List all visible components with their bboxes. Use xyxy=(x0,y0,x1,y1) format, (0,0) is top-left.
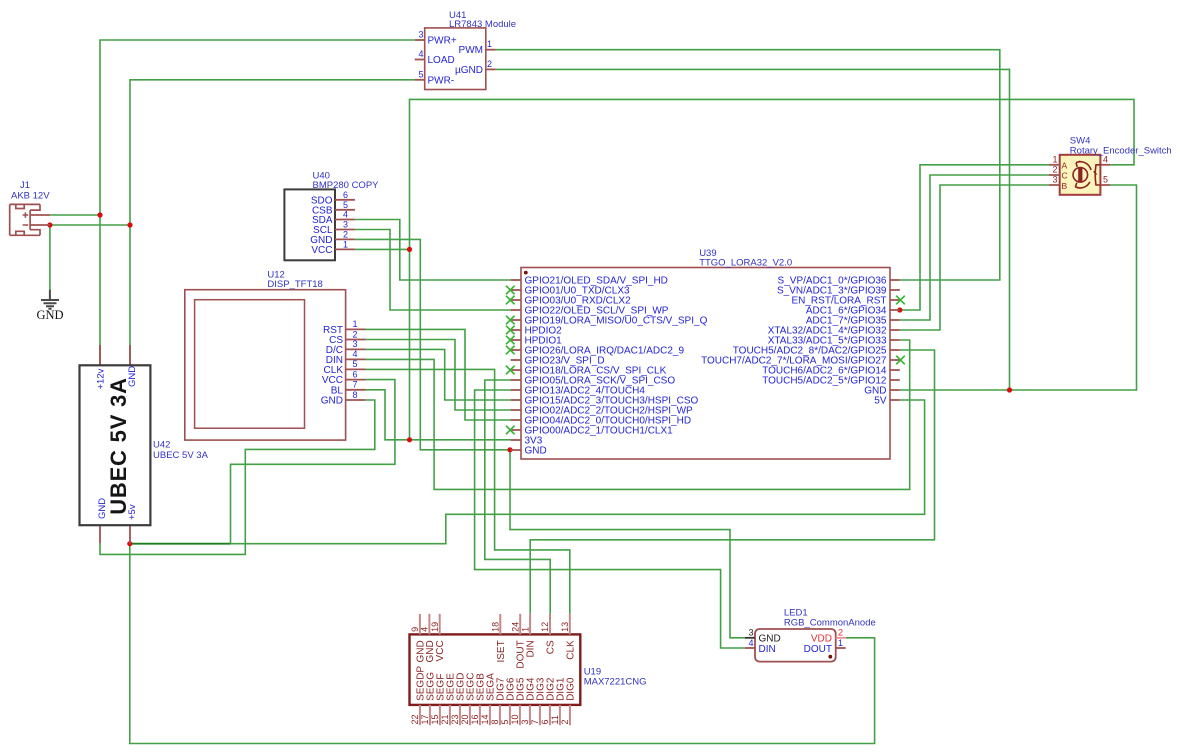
svg-text:GPIO00/ADC2_1/TOUCH1/CLX1: GPIO00/ADC2_1/TOUCH1/CLX1 xyxy=(525,426,674,437)
ground symbol GND xyxy=(36,290,63,322)
junction GND-A at U39 GND pin xyxy=(507,447,512,452)
wire net TFT-RST: U12 RST to U39 GPIO04 xyxy=(366,329,511,420)
sensor U40 BMP280 xyxy=(284,189,355,260)
svg-text:5: 5 xyxy=(1103,175,1108,185)
svg-text:1: 1 xyxy=(343,240,348,250)
svg-text:µGND: µGND xyxy=(455,65,483,76)
junction 3V3 at U39 3V3 rail xyxy=(407,437,412,442)
connector J1 xyxy=(10,204,50,235)
svg-text:14: 14 xyxy=(480,714,490,724)
wire net GND-A: BMP280 GND to U39 GND(left) and LED1 GND xyxy=(355,239,745,637)
svg-text:18: 18 xyxy=(491,622,501,632)
svg-text:4: 4 xyxy=(748,638,753,648)
svg-text:2: 2 xyxy=(352,329,357,339)
switch SW4 Rotary_Encoder_Switch xyxy=(1049,155,1110,195)
svg-text:PWR-: PWR- xyxy=(428,76,455,87)
svg-text:2: 2 xyxy=(343,230,348,240)
svg-text:6: 6 xyxy=(343,190,348,200)
regulator U42 UBEC 5V 3A xyxy=(80,345,151,544)
svg-text:5: 5 xyxy=(343,200,348,210)
wire net ENC-B: SW4 pin3 to U39 GPIO32 xyxy=(900,185,1049,330)
svg-text:4: 4 xyxy=(420,627,430,632)
wire net SDA: BMP280 SDA to U39 GPIO21 xyxy=(355,220,511,281)
svg-text:2: 2 xyxy=(560,719,570,724)
wire net GND-C: U41 uGND + U39 GND(right) + SW4 pin5 xyxy=(496,69,1137,390)
svg-text:U42: U42 xyxy=(153,440,170,451)
wire net +12V: J1 pin+ to U41 PWR+ and U42 +12v xyxy=(50,40,415,365)
svg-text:1: 1 xyxy=(838,638,843,648)
junction 3V3 at BMP280 VCC xyxy=(407,247,412,252)
wire net PGND: J1 pin- to U41 PWR-, U42 GND(top) and GND symbol xyxy=(50,80,415,365)
svg-text:VCC: VCC xyxy=(435,640,446,661)
junction +12V at J1+ xyxy=(97,212,102,217)
svg-text:7: 7 xyxy=(352,380,357,390)
junction +5V at U42 +5v pin xyxy=(127,541,132,546)
svg-text:1: 1 xyxy=(352,319,357,329)
svg-text:19: 19 xyxy=(430,622,440,632)
svg-text:5: 5 xyxy=(418,69,423,79)
junction PGND at J1- pin xyxy=(47,222,52,227)
svg-text:1: 1 xyxy=(487,39,492,49)
SW4 pin numbers xyxy=(1052,154,1108,184)
svg-text:GND: GND xyxy=(36,308,63,322)
driver U19 MAX7221CNG xyxy=(410,614,581,725)
svg-text:4: 4 xyxy=(343,210,348,220)
svg-text:AKB 12V: AKB 12V xyxy=(11,191,50,202)
svg-text:VCC: VCC xyxy=(311,245,332,256)
LED1 pin numbers xyxy=(748,627,843,648)
U39 no-connect marks xyxy=(506,286,905,435)
svg-text:5: 5 xyxy=(352,359,357,369)
display U12 DISP_TFT18 xyxy=(185,290,366,440)
svg-text:GND: GND xyxy=(525,446,547,457)
svg-text:3: 3 xyxy=(1052,175,1057,185)
svg-text:BMP280 COPY: BMP280 COPY xyxy=(313,180,380,191)
svg-text:LR7843 Module: LR7843 Module xyxy=(449,19,516,30)
svg-text:1: 1 xyxy=(1052,154,1057,164)
wire net MAX-DIN: U39 GPIO25 to U19 DIN xyxy=(530,350,934,614)
svg-text:GND: GND xyxy=(321,396,343,407)
wire net GND-B: U12 GND to U42 GND(bottom) xyxy=(100,400,375,554)
svg-text:10: 10 xyxy=(510,714,520,724)
module U41 LR7843 xyxy=(415,28,496,90)
wire net LORA-SCK: U39 GPIO05 to U19 CS xyxy=(485,380,550,614)
junction ENC-A at GPIO34 pin xyxy=(897,307,902,312)
svg-text:7: 7 xyxy=(530,719,540,724)
svg-text:4: 4 xyxy=(418,49,423,59)
svg-text:C: C xyxy=(1062,171,1068,181)
svg-text:2: 2 xyxy=(487,59,492,69)
led LED1 RGB_CommonAnode xyxy=(745,629,846,662)
svg-text:3: 3 xyxy=(520,719,530,724)
svg-text:20: 20 xyxy=(460,714,470,724)
wire net LED-DIN: U39 GPIO13 to LED1 DIN xyxy=(475,390,745,648)
svg-text:3: 3 xyxy=(352,339,357,349)
svg-text:3: 3 xyxy=(343,220,348,230)
junction GND-C at uGND column xyxy=(1007,387,1012,392)
U40 pin numbers xyxy=(343,190,348,250)
svg-text:2: 2 xyxy=(1052,165,1057,175)
wire net TFT-DC: U12 D/C to U39 GPIO15 xyxy=(366,349,511,400)
junction PGND at x=130 xyxy=(127,222,132,227)
svg-text:Rotary_Encoder_Switch: Rotary_Encoder_Switch xyxy=(1070,145,1172,156)
svg-text:B: B xyxy=(1062,181,1068,191)
svg-text:VDD: VDD xyxy=(811,634,832,645)
svg-text:RGB_CommonAnode: RGB_CommonAnode xyxy=(784,618,876,629)
svg-text:6: 6 xyxy=(540,719,550,724)
wire net +5V: U42 +5v to U39 5V, U12 VCC, LED1 VDD xyxy=(130,380,925,744)
svg-text:A: A xyxy=(1062,160,1068,170)
svg-text:DOUT: DOUT xyxy=(804,644,832,655)
mcu U39 TTGO_LORA32_V2.0 xyxy=(511,268,900,460)
svg-text:4: 4 xyxy=(352,349,357,359)
svg-text:11: 11 xyxy=(550,715,560,724)
wire net 3V3: U12 BL + BMP280 VCC + U39 3V3 + SW4 pin4 xyxy=(355,99,1134,439)
svg-text:TTGO_LORA32_V2.0: TTGO_LORA32_V2.0 xyxy=(699,258,792,269)
wire net ENC-C: SW4 pin2 to U39 GPIO35 xyxy=(900,175,1049,320)
svg-text:LOAD: LOAD xyxy=(428,55,455,66)
svg-text:J1: J1 xyxy=(20,180,30,191)
svg-text:DIG0: DIG0 xyxy=(565,677,576,701)
svg-text:2: 2 xyxy=(838,627,843,637)
svg-text:15: 15 xyxy=(430,714,440,724)
U19 pin names xyxy=(415,640,576,701)
svg-text:22: 22 xyxy=(410,714,420,724)
U12 pin numbers xyxy=(352,319,357,400)
U19 pin numbers xyxy=(410,622,570,725)
svg-text:12: 12 xyxy=(540,622,550,632)
svg-text:6: 6 xyxy=(352,369,357,379)
U41 pin numbers xyxy=(418,30,492,80)
svg-text:PWR+: PWR+ xyxy=(428,36,457,47)
svg-text:UBEC 5V 3A: UBEC 5V 3A xyxy=(106,377,131,515)
wire net ENC-A: SW4 pin1 to U39 GPIO34 xyxy=(900,165,1049,310)
svg-text:DIN: DIN xyxy=(759,644,776,655)
svg-text:PWM: PWM xyxy=(459,45,483,56)
svg-text:13: 13 xyxy=(560,622,570,632)
svg-text:8: 8 xyxy=(490,719,500,724)
svg-text:8: 8 xyxy=(352,390,357,400)
wire net SCL: BMP280 SCL to U39 GPIO22 xyxy=(355,230,511,311)
svg-text:17: 17 xyxy=(420,714,430,724)
wire net PWM: U41 PWM to U39 GPIO36 xyxy=(496,50,1000,280)
svg-text:1: 1 xyxy=(520,627,530,632)
svg-text:9: 9 xyxy=(410,627,420,632)
svg-text:GND: GND xyxy=(759,634,781,645)
svg-text:24: 24 xyxy=(510,622,520,632)
svg-text:CLK: CLK xyxy=(565,640,576,660)
svg-text:21: 21 xyxy=(440,714,450,724)
svg-text:3: 3 xyxy=(748,627,753,637)
svg-text:DISP_TFT18: DISP_TFT18 xyxy=(267,279,322,290)
svg-text:16: 16 xyxy=(470,714,480,724)
svg-text:DIN: DIN xyxy=(526,640,537,657)
wire net TFT-CS: U12 CS to U39 GPIO02 xyxy=(366,340,511,411)
wire net TFT-CLK: U12 CLK to U19 CLK xyxy=(366,369,570,614)
svg-text:CS: CS xyxy=(546,640,557,654)
svg-text:5V: 5V xyxy=(874,396,887,407)
wire net TFT-DIN: U12 DIN to U39 GPIO33 xyxy=(366,340,910,489)
svg-text:3: 3 xyxy=(418,30,423,40)
svg-text:ISET: ISET xyxy=(496,640,507,662)
svg-text:UBEC 5V 3A: UBEC 5V 3A xyxy=(153,450,209,461)
svg-text:5: 5 xyxy=(500,719,510,724)
svg-text:23: 23 xyxy=(450,714,460,724)
svg-text:+12v: +12v xyxy=(95,368,106,389)
svg-text:MAX7221CNG: MAX7221CNG xyxy=(584,677,647,688)
